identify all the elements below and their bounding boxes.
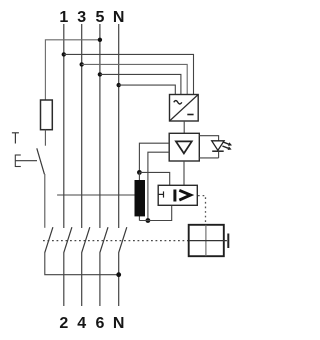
wire rectifier to amplifier <box>183 121 185 133</box>
node test return on N <box>116 272 121 277</box>
node branch N <box>117 83 121 87</box>
svg-text:3: 3 <box>77 9 86 26</box>
svg-text:6: 6 <box>95 315 104 332</box>
wire pole N vertical <box>118 24 120 228</box>
svg-text:N: N <box>113 9 125 26</box>
label T test button <box>12 133 19 144</box>
wire pole 6 lower <box>99 252 101 306</box>
contact pole 3 blade <box>82 227 90 252</box>
wire branch L1 to rectifier <box>64 54 194 95</box>
wire CT primary from left <box>57 194 134 196</box>
rectifier U1 box <box>170 95 199 122</box>
node test branch on pole 5 <box>98 38 102 42</box>
wire I-release bottom return <box>139 205 171 220</box>
resistor test R <box>41 100 53 130</box>
LED D1 <box>212 141 232 158</box>
wire pole 2 lower <box>63 252 65 306</box>
node CT secondary lower <box>146 218 151 223</box>
contact test pole blade <box>45 227 53 252</box>
wire pole L1 vertical <box>63 24 65 228</box>
svg-text:4: 4 <box>77 315 86 332</box>
wire test-resistor branch to pole 5 <box>45 40 100 100</box>
wire LED bottom rail <box>199 157 218 159</box>
pushbutton actuator E <box>15 155 37 168</box>
wire resistor to test switch <box>44 130 46 146</box>
wire branch L2 to rectifier <box>82 64 188 95</box>
wire amplifier input upper <box>139 143 169 172</box>
node CT secondary upper <box>137 170 142 175</box>
svg-text:2: 2 <box>59 315 68 332</box>
wire pole N lower <box>118 252 120 306</box>
wire CT secondary through core <box>138 172 140 220</box>
wire amplifier input lower <box>148 152 169 220</box>
amplifier U2 box <box>169 133 199 161</box>
wire LED top rail <box>199 136 218 141</box>
svg-text:N: N <box>113 315 125 332</box>
relay I> release box <box>158 185 197 205</box>
test switch contact blade <box>37 148 45 174</box>
transformer core W1 <box>135 180 146 216</box>
svg-text:1: 1 <box>59 9 68 26</box>
wire pole L3 vertical <box>99 24 101 228</box>
wire dotted I-release to trip coil <box>198 196 206 225</box>
wire branch L3 to rectifier <box>100 74 181 95</box>
svg-text:5: 5 <box>95 9 104 26</box>
contact pole 1 blade <box>64 227 72 252</box>
node branch L1 <box>62 52 66 56</box>
wire amplifier output to I-release <box>183 161 185 185</box>
node branch L2 <box>80 62 84 66</box>
wire node to I-release top <box>139 172 169 185</box>
linkage dotted mechanical <box>43 240 189 242</box>
wire pole L2 vertical <box>81 24 83 228</box>
wire test return to N <box>45 252 119 274</box>
wire test switch to test pole contact <box>44 174 46 228</box>
wire branch N to rectifier <box>119 85 176 95</box>
trip solenoid F1 <box>189 225 229 256</box>
node branch L3 <box>98 72 102 76</box>
contact pole 5 blade <box>100 227 108 252</box>
wire pole 4 lower <box>81 252 83 306</box>
contact pole N blade <box>119 227 127 252</box>
